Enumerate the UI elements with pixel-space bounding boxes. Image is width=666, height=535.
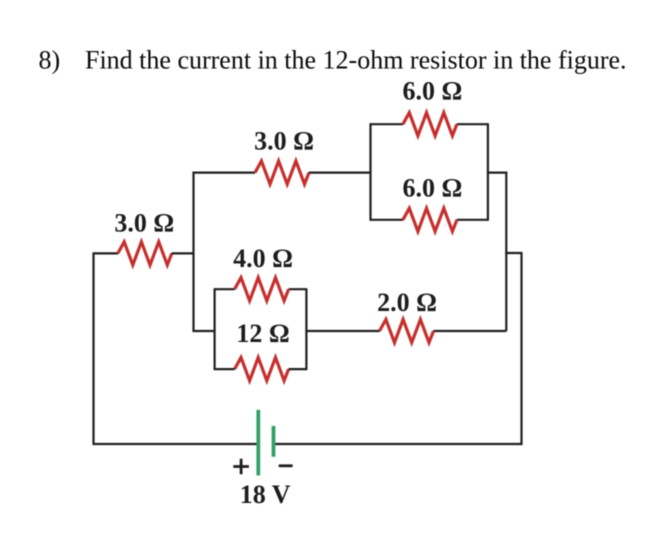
wire: node B vertical (top wire down to parallel box input): [192, 172, 194, 332]
wire: 6-ohm box left edge: [369, 123, 371, 221]
resistor R4 6.0-ohm (lower of parallel pair): [403, 208, 457, 231]
wire: 6-ohm box top edge segments: [371, 123, 488, 125]
svg-text:4.0 Ω: 4.0 Ω: [233, 244, 293, 273]
wire: 6-ohm box right edge: [487, 123, 489, 221]
wire: right outer vertical up from bottom rail: [520, 253, 522, 445]
wire: parallel box (4/12 ohm) right edge: [305, 288, 307, 370]
wire: left lead of left 3.0-ohm resistor: [94, 252, 119, 254]
svg-text:8): 8): [39, 46, 61, 75]
svg-text:6.0 Ω: 6.0 Ω: [403, 77, 463, 106]
svg-text:18 V: 18 V: [240, 480, 291, 509]
wire: 6-ohm box bottom edge segments: [371, 219, 488, 221]
wire: output lead from 6-ohm box to node C: [487, 172, 507, 174]
battery B1 positive plate (long): [256, 410, 260, 476]
resistor R2 3.0-ohm (top branch): [255, 161, 309, 184]
wire: top rail right segment from R2 to 6-ohm box: [309, 172, 372, 174]
resistor R3 6.0-ohm (upper of parallel pair): [403, 113, 457, 136]
svg-text:6.0 Ω: 6.0 Ω: [403, 174, 463, 203]
wire: left lead of 2.0-ohm to parallel box: [305, 330, 379, 332]
wire: parallel box bottom edge segments: [215, 368, 307, 370]
battery B1 negative plate (short): [272, 426, 276, 457]
wire: top rail left segment to 3.0-ohm: [193, 172, 256, 174]
svg-text:12 Ω: 12 Ω: [236, 319, 289, 348]
wire: right lead of R1 to node B vertical: [172, 252, 195, 254]
svg-text:3.0 Ω: 3.0 Ω: [254, 126, 314, 155]
wire: right lead of 2.0-ohm resistor: [434, 330, 507, 332]
wire: bottom rail left segment to battery positive plate: [93, 443, 257, 445]
wire: parallel box left edge: [214, 288, 216, 370]
wire: parallel box top edge segments: [215, 288, 307, 290]
svg-text:3.0 Ω: 3.0 Ω: [114, 209, 174, 238]
label plus terminal: [233, 459, 249, 475]
resistor R6 12-ohm (lower of parallel pair): [235, 358, 289, 381]
wire: jog from right outer vertical to node C: [505, 252, 522, 254]
resistor R5 4.0-ohm (upper of parallel pair): [235, 278, 289, 301]
wire: left vertical down from R1 to bottom rail: [92, 252, 94, 444]
wire: bottom rail right segment from battery to right vertical: [275, 443, 522, 445]
wire: input lead into parallel box from node B: [193, 330, 215, 332]
label minus terminal: [279, 464, 293, 467]
svg-text:Find the current in the 12-ohm: Find the current in the 12-ohm resistor …: [85, 46, 627, 75]
resistor R1 3.0-ohm (left branch): [118, 242, 172, 265]
svg-text:2.0 Ω: 2.0 Ω: [377, 288, 437, 317]
resistor R7 2.0-ohm: [380, 319, 434, 342]
wire: node C vertical (joins 6-ohm pair output and 2.0-ohm): [505, 172, 507, 331]
